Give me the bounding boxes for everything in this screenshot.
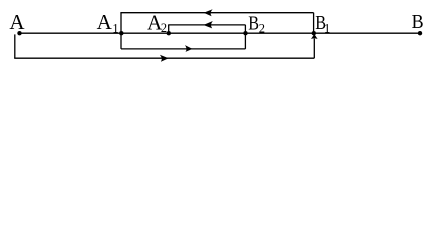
svg-text:A: A xyxy=(97,10,113,34)
svg-text:1: 1 xyxy=(112,21,118,35)
svg-text:1: 1 xyxy=(324,21,330,35)
svg-text:B: B xyxy=(412,11,424,33)
svg-text:A: A xyxy=(9,10,25,34)
svg-text:2: 2 xyxy=(259,21,265,35)
svg-text:2: 2 xyxy=(161,21,167,35)
svg-text:B: B xyxy=(248,12,259,34)
